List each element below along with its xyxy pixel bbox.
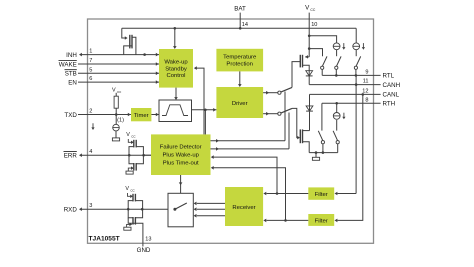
svg-text:3: 3 <box>89 203 92 209</box>
svg-text:Receiver: Receiver <box>232 205 255 211</box>
current source 2 <box>353 43 365 56</box>
wire PMOS gate from switch 1 blade <box>292 62 300 88</box>
driver output switch 1 <box>263 87 292 94</box>
svg-text:CC: CC <box>310 8 315 12</box>
svg-text:INH: INH <box>66 52 77 59</box>
svg-text:Filter: Filter <box>315 219 328 225</box>
svg-text:13: 13 <box>145 236 151 242</box>
current direction arrow near TXD <box>91 123 94 130</box>
wire failure out 1 to driver switch <box>211 92 286 143</box>
pin 6 EN <box>68 76 159 86</box>
switch 4 RTH to ground <box>318 131 324 153</box>
svg-text:TJA1055T: TJA1055T <box>89 235 120 242</box>
driver output switch 2 <box>263 108 292 115</box>
chip boundary TJA1055T <box>88 19 374 243</box>
svg-text:CANH: CANH <box>383 82 401 89</box>
svg-text:RTL: RTL <box>383 73 395 80</box>
svg-text:Wake-up: Wake-up <box>164 59 188 65</box>
switch 1 VCC to RTL <box>321 56 327 75</box>
wire receiver to multiplexer 2 <box>194 207 225 211</box>
svg-text:GND: GND <box>137 247 151 254</box>
pin 4 ERR <box>64 149 152 159</box>
ground bar on rail <box>312 153 319 161</box>
svg-text:Control: Control <box>167 73 186 79</box>
svg-text:Timer: Timer <box>134 113 149 119</box>
wire failure detector to RXD multiplexer <box>179 175 183 197</box>
svg-text:4: 4 <box>89 149 92 155</box>
wire receiver to multiplexer 1 <box>194 202 225 206</box>
multiplexer box <box>168 193 193 227</box>
svg-text:CANL: CANL <box>383 92 400 99</box>
svg-text:V: V <box>126 132 130 138</box>
svg-text:BAT: BAT <box>234 5 246 12</box>
current source TXD <box>112 115 119 141</box>
wire filter 2 to receiver <box>263 219 308 223</box>
svg-text:14: 14 <box>242 22 248 28</box>
wire BAT rail to current source 2 <box>355 28 357 43</box>
wire filter 1 to receiver <box>263 192 308 196</box>
wire CANL to filter 2 <box>335 94 363 222</box>
switch 3 under current source 2 <box>354 56 360 75</box>
block receiver <box>225 187 263 226</box>
wire CANH to filter 1 <box>335 75 357 195</box>
block filter 2 <box>308 214 334 226</box>
pin 14 BAT <box>234 5 248 28</box>
wire RXD stage to GND pin <box>128 218 143 244</box>
wire receiver to multiplexer 3 <box>194 214 225 218</box>
svg-text:9: 9 <box>365 69 368 75</box>
svg-text:STB: STB <box>65 71 77 78</box>
switch 5 under current source 4 <box>333 131 339 153</box>
transistor CANL driver NMOS <box>300 129 309 152</box>
diode CANH <box>306 71 313 85</box>
current source 4 on RTH <box>333 102 345 131</box>
pin 2 TXD <box>64 109 131 119</box>
ground bar RXD stage <box>124 223 132 231</box>
wire wake-up feed from BAT rail <box>173 28 177 49</box>
svg-text:6: 6 <box>89 76 92 82</box>
svg-text:ERR: ERR <box>64 153 78 160</box>
pin 10 VCC <box>305 4 317 57</box>
svg-text:8: 8 <box>365 97 368 103</box>
label (1) <box>117 118 124 124</box>
current source 1 <box>333 43 345 56</box>
wire failure out 2 to driver switch <box>211 113 290 151</box>
block filter 1 <box>308 187 334 199</box>
pin 5 STB <box>65 67 160 77</box>
svg-text:V: V <box>125 186 129 192</box>
transistor pair RXD output <box>125 186 142 225</box>
wire TXD sense to failure detector <box>204 110 206 135</box>
svg-text:11: 11 <box>363 79 369 85</box>
svg-text:5: 5 <box>89 67 92 73</box>
svg-text:(1): (1) <box>117 118 124 124</box>
svg-text:WAKE: WAKE <box>59 61 77 68</box>
wire ERR gates to failure detector <box>143 154 151 156</box>
wire filtered CANH to failure detector <box>211 155 277 193</box>
svg-text:10: 10 <box>311 22 317 28</box>
block driver <box>216 87 263 118</box>
wire slope box to driver <box>192 108 217 112</box>
resistor TXD pull-up <box>114 93 118 116</box>
svg-text:1: 1 <box>89 49 92 55</box>
wire failure detector to wake-up control <box>194 66 204 134</box>
svg-text:RTH: RTH <box>383 101 396 108</box>
pin 3 RXD <box>64 203 168 213</box>
block temperature protection <box>216 49 263 72</box>
pin 1 INH <box>66 49 159 59</box>
wire VCC branch to switch 1 <box>308 47 323 56</box>
svg-text:Standby: Standby <box>165 66 187 72</box>
block timer <box>131 108 151 121</box>
svg-text:Plus Wake-up: Plus Wake-up <box>162 153 199 159</box>
switch 2 under current source 1 <box>335 56 341 75</box>
svg-text:EN: EN <box>68 79 77 86</box>
svg-text:2: 2 <box>89 109 92 115</box>
svg-text:Protection: Protection <box>226 62 253 68</box>
block wake-up standby control <box>159 49 193 88</box>
wire BAT rail <box>122 27 356 30</box>
svg-text:V: V <box>112 87 116 93</box>
wire wake-up to slope box <box>174 88 178 100</box>
ground rail <box>309 151 338 154</box>
svg-text:Driver: Driver <box>232 101 248 107</box>
svg-text:12: 12 <box>362 88 368 94</box>
wire timer to slope box <box>151 113 159 117</box>
pin 8 RTH <box>322 97 395 107</box>
transistor pair ERR output <box>126 132 143 174</box>
diode CANL <box>306 94 313 130</box>
svg-text:RXD: RXD <box>64 207 78 214</box>
pin 9 RTL <box>322 69 394 79</box>
wire RTH to switch 4 <box>321 103 323 130</box>
wire NMOS gate from switch 2 blade <box>292 108 300 139</box>
svg-text:Failure Detector: Failure Detector <box>160 145 202 151</box>
wire temp protection to driver <box>238 71 242 87</box>
pin 12 CANL <box>310 88 400 98</box>
multiplexer blade <box>173 203 186 211</box>
block failure detector <box>151 134 211 175</box>
svg-text:Plus Time-out: Plus Time-out <box>163 161 199 167</box>
svg-text:7: 7 <box>89 58 92 64</box>
svg-text:Temperature: Temperature <box>223 54 257 60</box>
label TJA1055T <box>89 235 120 242</box>
pin 7 WAKE <box>59 58 160 68</box>
wire filtered CANL to failure detector <box>211 166 286 220</box>
wire VCC branch to current source 1 <box>308 35 337 43</box>
pin 11 CANH <box>309 79 400 89</box>
slope control box <box>159 100 192 122</box>
vcc label above resistor <box>112 87 122 94</box>
transistor INH switch <box>122 28 136 54</box>
svg-text:TXD: TXD <box>64 112 77 119</box>
transistor CANH driver PMOS <box>300 55 309 71</box>
svg-text:Filter: Filter <box>315 192 328 198</box>
pin 13 GND <box>137 236 152 254</box>
